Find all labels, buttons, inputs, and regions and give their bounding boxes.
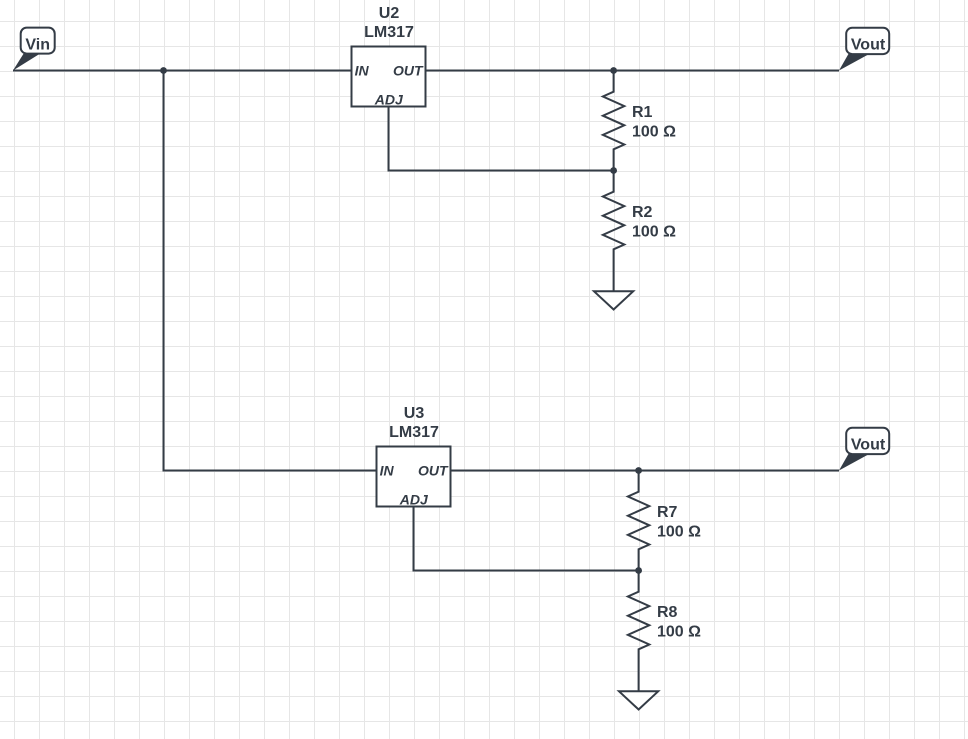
wire: branch from node A down and right to U3 IN bbox=[164, 71, 840, 471]
svg-text:R1: R1 bbox=[632, 104, 653, 121]
svg-text:100 Ω: 100 Ω bbox=[657, 524, 701, 541]
Vin flag bbox=[13, 53, 41, 71]
node: OUT/R1 junction bbox=[610, 67, 617, 74]
op-amp U2 (LM317 regulator body) bbox=[352, 47, 426, 107]
svg-text:100 Ω: 100 Ω bbox=[632, 124, 676, 141]
svg-text:Vin: Vin bbox=[25, 36, 50, 53]
wire: U2 ADJ to R1/R2 node bbox=[389, 107, 614, 171]
svg-text:100 Ω: 100 Ω bbox=[657, 624, 701, 641]
svg-text:IN: IN bbox=[355, 63, 370, 79]
resistor R7 bbox=[628, 471, 649, 571]
resistor R2 bbox=[603, 171, 624, 271]
node A junction on top rail bbox=[160, 67, 167, 74]
svg-text:U2: U2 bbox=[379, 5, 400, 22]
node: ADJ/R1/R2 junction bbox=[610, 167, 617, 174]
ground (bottom, below R8) bbox=[638, 671, 640, 692]
wire: Vin rail to Vout (top), y=70.5 bbox=[13, 70, 839, 72]
svg-text:LM317: LM317 bbox=[389, 424, 439, 441]
svg-text:Vout: Vout bbox=[851, 436, 886, 453]
svg-text:U3: U3 bbox=[404, 405, 425, 422]
resistor R1 bbox=[603, 71, 624, 171]
svg-text:ADJ: ADJ bbox=[399, 492, 429, 508]
wire: U3 ADJ to R7/R8 node bbox=[414, 507, 639, 571]
svg-text:OUT: OUT bbox=[393, 63, 424, 79]
svg-text:OUT: OUT bbox=[418, 463, 449, 479]
svg-text:R2: R2 bbox=[632, 204, 653, 221]
resistor R8 bbox=[628, 571, 649, 671]
svg-text:100 Ω: 100 Ω bbox=[632, 224, 676, 241]
Vout flag (top) bbox=[839, 53, 871, 71]
svg-text:R7: R7 bbox=[657, 504, 678, 521]
ground (top, below R2) bbox=[613, 271, 615, 292]
node: ADJ/R7/R8 junction bbox=[635, 567, 642, 574]
op-amp U3 (LM317 regulator body) bbox=[377, 447, 451, 507]
svg-text:ADJ: ADJ bbox=[374, 92, 404, 108]
svg-text:R8: R8 bbox=[657, 604, 678, 621]
svg-text:IN: IN bbox=[380, 463, 395, 479]
Vout flag (bottom) bbox=[839, 453, 871, 471]
svg-text:Vout: Vout bbox=[851, 36, 886, 53]
node: OUT/R7 junction bbox=[635, 467, 642, 474]
svg-text:LM317: LM317 bbox=[364, 24, 414, 41]
